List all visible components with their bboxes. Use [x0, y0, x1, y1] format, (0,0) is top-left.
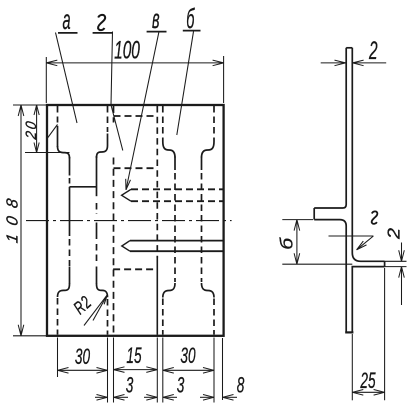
slot A lower right fillet: [97, 284, 108, 298]
dim 2 top: tails: [321, 62, 346, 64]
slot A foot left line (dashed): [57, 298, 59, 335]
slot A stem left line: [69, 157, 71, 176]
svg-text:б: б: [186, 3, 195, 34]
leader a: [56, 33, 78, 124]
leader v arrowhead: [126, 179, 131, 190]
svg-text:100: 100: [114, 37, 140, 65]
label g (custom path, GOST italic): [98, 15, 105, 30]
svg-text:8: 8: [237, 372, 245, 397]
svg-text:30: 30: [75, 344, 91, 369]
20 arrows: [34, 105, 39, 115]
dim 8: tails: [200, 396, 214, 398]
2 right arrows converging: [399, 250, 405, 261]
flange2 end cap: [384, 261, 386, 266]
svg-text:3: 3: [177, 372, 185, 397]
25 arrows: [352, 390, 363, 396]
dim 3 second: tails: [144, 396, 157, 398]
slot A right upper fillet: [97, 146, 108, 159]
b dim arrows: [294, 220, 300, 231]
label underlines: [58, 32, 78, 34]
flange1 end cap: [313, 208, 315, 220]
svg-text:2: 2: [368, 37, 378, 65]
slot B right upper fillet: [202, 142, 215, 158]
slot B (right) left outer line dashed: [162, 106, 164, 142]
svg-text:20: 20: [23, 118, 40, 141]
slot A left upper fillet (S curve to stem): [58, 146, 70, 159]
bottom ext lines: [57, 338, 59, 378]
hidden rect top line: [114, 115, 158, 117]
svg-text:в: в: [152, 3, 160, 34]
svg-text:108: 108: [4, 189, 22, 244]
leader b: [177, 32, 194, 136]
2 right dim line segments: [401, 243, 403, 262]
slot A left outer line (solid part): [57, 126, 59, 147]
upper fork tip converge: [122, 189, 131, 201]
web right line upper + fillet to flange2 top: [352, 48, 384, 261]
leader g: [111, 32, 123, 151]
slot A stem right line: [96, 156, 98, 196]
2 right ext lines: [385, 260, 407, 262]
upper fork hidden lines (dashed pair): [131, 188, 224, 190]
web bottom cap: [345, 331, 353, 333]
slot B lower right fillet: [202, 283, 215, 298]
108 arrows: [18, 105, 24, 116]
slot B foot right line dashed: [213, 299, 215, 335]
arrowheads: [18, 60, 233, 400]
25 dim line: [352, 391, 384, 393]
ext line for 20 bottom: [25, 152, 70, 154]
3 first arrows (converging): [97, 395, 108, 401]
svg-text:15: 15: [126, 343, 142, 368]
30 left arrows: [58, 368, 69, 374]
dimension line 100: [46, 62, 223, 64]
diagonal tick at plate left edge: [47, 124, 57, 138]
svg-text:2: 2: [384, 227, 404, 240]
lower fork tip converge: [122, 241, 130, 252]
middle slot right line solid lower part: [156, 258, 158, 335]
svg-text:3: 3: [126, 372, 134, 397]
dimension line 108: [20, 105, 22, 336]
30 right arrows: [163, 368, 174, 374]
slot A lower left fillet: [58, 284, 70, 298]
slot B right outer line dashed: [213, 106, 215, 142]
lower fork solid lines: [130, 240, 224, 242]
15 arrows: [114, 367, 125, 373]
slot B stem right line: [201, 157, 203, 171]
slot B foot left line dashed: [162, 299, 164, 335]
centerline horizontal (dash-dot): [26, 220, 232, 222]
g leader shelf: [329, 235, 374, 237]
web top cap: [346, 47, 352, 49]
b dim ext lines: [282, 219, 313, 221]
hidden rect lower line: [113, 268, 157, 270]
slot A right outer line (dashed then solid): [107, 106, 109, 132]
svg-text:а: а: [63, 4, 71, 35]
8 arrows: [203, 395, 214, 401]
25 ext lines: [351, 334, 353, 400]
hidden middle slot right line (dashed upper): [156, 106, 158, 258]
flange1 bottom + fillet to web left lower: [314, 220, 346, 333]
dim 3 first: tails: [95, 396, 108, 398]
slot B stem left line: [174, 157, 176, 171]
ext line bottom edge leftwards (108): [13, 335, 46, 337]
dimension line 20: [36, 105, 38, 153]
plate outline (left view, solid thick): [47, 105, 224, 336]
flange2 bottom + web right lower: [352, 267, 384, 333]
3 second arrows: [146, 395, 157, 401]
leader v: [126, 32, 159, 190]
svg-text:25: 25: [360, 368, 377, 393]
b dim line: [296, 220, 298, 265]
label g side view (custom path): [372, 211, 378, 224]
dim line 30 right: [163, 369, 214, 371]
slot B left upper fillet: [163, 142, 175, 158]
dim line 30 left: [58, 369, 108, 371]
100 arrows: [46, 60, 57, 66]
slot B lower left fillet: [163, 283, 175, 298]
g leader arrowhead: [357, 241, 367, 250]
ext lines for 100: [45, 57, 47, 103]
hidden rect second line: [114, 167, 158, 169]
2 top arrows converging: [335, 60, 346, 66]
label leaders: [56, 31, 201, 326]
g leader diagonal: [357, 236, 374, 250]
slot A foot right line (dashed): [107, 299, 109, 335]
web left line upper + flange1 top with fillet: [314, 48, 346, 208]
hidden middle slot left line (dashed, gap in upper part): [113, 106, 115, 123]
svg-text:30: 30: [180, 343, 196, 368]
slot A step line: [70, 186, 97, 188]
slot A left outer line (dashed top): [57, 106, 59, 123]
svg-text:б: б: [277, 237, 297, 250]
R2 leader with arrow: [84, 295, 107, 326]
dim line 15: [114, 369, 158, 371]
ext line top edge leftwards (108/20): [13, 104, 46, 106]
